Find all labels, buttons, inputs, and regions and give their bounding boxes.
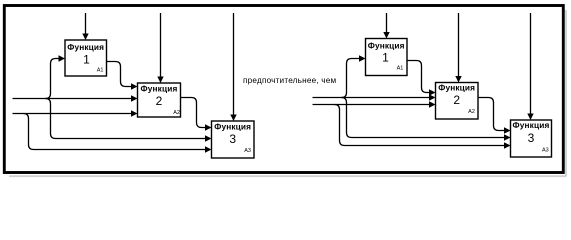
arrowhead control into left box 1 (82, 34, 88, 41)
arrowhead R1 into right box 2 (429, 94, 436, 100)
arrowhead left box2 output into box 3 (205, 124, 212, 130)
arrowhead L2 into left box 2 (131, 110, 138, 116)
L1 fork down to left box 3 middle input (46, 99, 206, 139)
arrowhead into right box 1 input (359, 55, 366, 61)
output wire of right box 1 into right box 2 (407, 61, 430, 93)
arrowhead control into right box 2 (455, 76, 461, 83)
input wire R2 to right box 2 (313, 104, 430, 106)
arrowhead right box1 output into box 2 (429, 89, 436, 95)
outer frame (4, 6, 563, 173)
outer frame shadow bottom (9, 175, 567, 177)
svg-text:2: 2 (453, 93, 460, 107)
control wire into right box 1 (386, 13, 388, 33)
input wire L2 to left box 2 (13, 113, 132, 115)
left function box 2 (138, 83, 181, 117)
svg-text:А3: А3 (244, 148, 251, 154)
output wire of right box 2 into right box 3 (478, 98, 505, 131)
arrowhead L1 fork into left box 3 (205, 135, 212, 141)
svg-text:1: 1 (83, 53, 90, 67)
arrowhead L2 fork into left box 3 (205, 146, 212, 152)
R1 fork up into right box 1 (342, 59, 360, 98)
right diagram arrowheads (359, 32, 534, 149)
arrowhead R2 into right box 2 (429, 101, 436, 107)
L2 fork down to left box 3 bottom input (24, 114, 206, 150)
control wire into left box 2 (160, 13, 162, 78)
svg-text:Функция: Функция (67, 42, 104, 52)
svg-text:А1: А1 (397, 66, 404, 72)
svg-text:3: 3 (528, 131, 535, 145)
arrowhead left box1 output into box 2 (131, 83, 138, 89)
svg-text:Функция: Функция (368, 40, 405, 50)
control wire into right box 2 (458, 13, 460, 77)
input wire L1 to left box 2 (13, 98, 132, 100)
svg-text:А2: А2 (173, 110, 180, 116)
left diagram wires (13, 13, 234, 150)
right diagram wires (313, 13, 531, 146)
svg-text:Функция: Функция (513, 120, 550, 130)
outer frame shadow right (565, 10, 567, 176)
left diagram arrowheads (59, 34, 237, 153)
arrowhead L1 into left box 2 (131, 95, 138, 101)
L1 fork up into left box 1 (46, 59, 60, 99)
svg-text:А3: А3 (542, 148, 549, 154)
right function box 2 (436, 82, 479, 119)
arrowhead into left box 1 input (59, 55, 66, 61)
right function box 1 (366, 39, 408, 76)
control wire into left box 3 (233, 13, 235, 116)
svg-text:предпочтительнее, чем: предпочтительнее, чем (243, 76, 337, 85)
output wire of left box 1 into left box 2 (107, 62, 132, 87)
arrowhead R2 fork into right box 3 (504, 142, 511, 148)
control wire into left box 1 (85, 13, 87, 35)
left function box 1 (65, 40, 107, 76)
left function box 3 (212, 121, 255, 158)
arrowhead control into left box 3 (230, 115, 236, 122)
svg-text:Функция: Функция (141, 84, 178, 94)
control wire into right box 3 (530, 13, 532, 115)
arrowhead control into right box 1 (383, 32, 389, 39)
svg-text:2: 2 (156, 94, 163, 108)
arrowhead control into left box 2 (157, 77, 163, 84)
svg-text:Функция: Функция (438, 82, 475, 92)
svg-text:А2: А2 (468, 109, 475, 115)
output wire of left box 2 into left box 3 (181, 98, 206, 128)
svg-text:А1: А1 (97, 67, 104, 73)
svg-text:1: 1 (382, 51, 389, 65)
input wire R1 to right box 2 (313, 97, 430, 99)
R2 fork down to right box 3 bottom input (335, 105, 505, 146)
arrowhead right box2 output into box 3 (504, 127, 511, 133)
right function box 3 (511, 120, 552, 157)
arrowhead control into right box 3 (527, 114, 533, 121)
R1 fork down to right box 3 middle input (342, 98, 505, 138)
svg-text:Функция: Функция (214, 121, 251, 131)
arrowhead R1 fork into right box 3 (504, 134, 511, 140)
svg-text:3: 3 (229, 132, 236, 146)
